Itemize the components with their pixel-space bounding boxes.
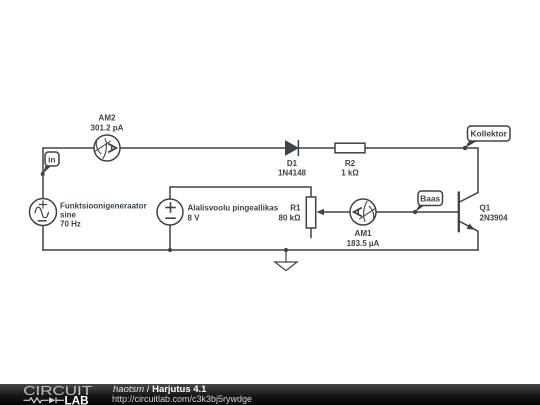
ammeter AM1: [350, 199, 376, 225]
svg-text:AM2: AM2: [99, 114, 116, 123]
svg-text:183.5 µA: 183.5 µA: [347, 239, 380, 248]
svg-text:301.2 pA: 301.2 pA: [91, 124, 124, 133]
resistor R2: [335, 143, 365, 153]
flag in: [41, 152, 59, 176]
wire bottom rail: [43, 249, 478, 251]
svg-text:R2: R2: [345, 159, 356, 168]
footer text line 2: [112, 394, 252, 404]
wire top-left corner to AM2: [43, 148, 94, 198]
svg-text:in: in: [48, 154, 55, 164]
R1 wiper arrow: [317, 209, 325, 216]
wire AM1 to Q1 base: [376, 211, 458, 213]
footer text line 1: [113, 384, 206, 395]
footer bar: [0, 384, 540, 405]
flag Baas: [413, 191, 443, 214]
junction dot V2 bottom: [168, 248, 172, 252]
wire R2 to right corner, down to Q1 collector: [365, 148, 478, 192]
svg-text:70 Hz: 70 Hz: [60, 220, 81, 229]
flag Kollektor: [463, 126, 510, 150]
svg-text:80 kΩ: 80 kΩ: [279, 214, 302, 223]
svg-text:Funktsioonigeneraator: Funktsioonigeneraator: [60, 202, 147, 211]
svg-text:R1: R1: [290, 204, 301, 213]
junction dot ground tap: [284, 248, 288, 252]
svg-text:AM1: AM1: [355, 229, 372, 238]
transistor Q1: [459, 193, 478, 232]
dc source V2: [157, 199, 183, 225]
wire AM2 to D1: [120, 147, 285, 149]
svg-text:8 V: 8 V: [188, 214, 201, 223]
svg-text:D1: D1: [287, 159, 298, 168]
wire V2 top lead to R1 top: [170, 187, 311, 199]
ground: [275, 250, 297, 271]
svg-text:Alalisvoolu pingeallikas: Alalisvoolu pingeallikas: [188, 204, 279, 213]
svg-text:LAB: LAB: [65, 394, 89, 405]
function generator V1: [30, 199, 57, 226]
ammeter AM2: [94, 135, 120, 161]
potentiometer R1: [306, 197, 315, 228]
svg-text:1 kΩ: 1 kΩ: [341, 169, 359, 178]
wire AM1 wiper to R1: [321, 211, 350, 213]
svg-text:Baas: Baas: [420, 194, 440, 204]
wire V2 bottom lead: [169, 225, 171, 250]
wire Q1 emitter down to bottom rail: [477, 232, 479, 251]
wire R1 bottom stub: [310, 228, 312, 238]
wire D1 to R2: [298, 147, 335, 149]
wire generator bottom to bottom rail: [42, 226, 44, 251]
svg-text:Kollektor: Kollektor: [471, 129, 508, 139]
svg-text:1N4148: 1N4148: [278, 169, 307, 178]
svg-text:Q1: Q1: [480, 204, 491, 213]
diode D1: [286, 141, 299, 156]
svg-text:2N3904: 2N3904: [480, 214, 509, 223]
CircuitLab logo: [0, 384, 110, 405]
svg-text:sine: sine: [60, 211, 77, 220]
